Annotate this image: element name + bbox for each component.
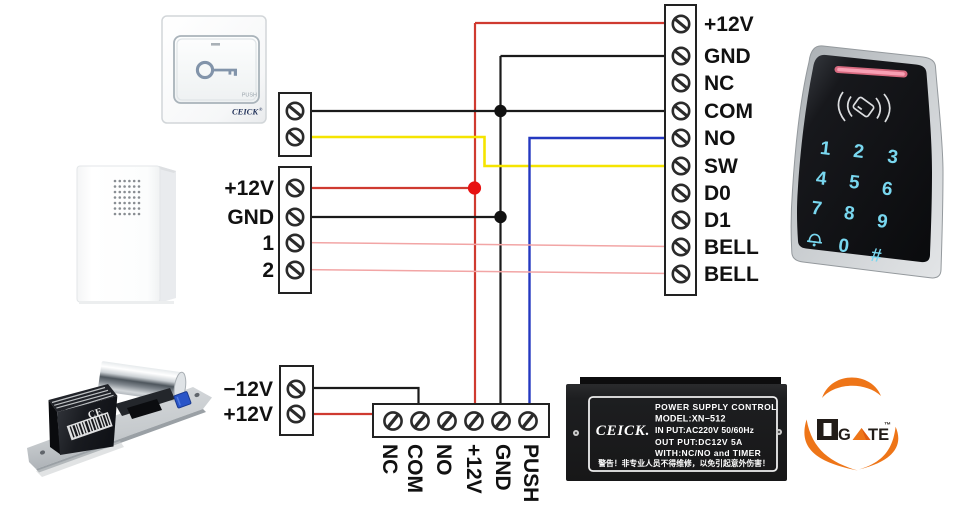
exit button switch bbox=[162, 16, 266, 123]
svg-text:+12V: +12V bbox=[224, 177, 274, 200]
svg-text:NC: NC bbox=[378, 444, 401, 474]
svg-text:WITH:NC/NO and TIMER: WITH:NC/NO and TIMER bbox=[655, 448, 761, 458]
svg-text:POWER SUPPLY CONTROL: POWER SUPPLY CONTROL bbox=[655, 402, 777, 412]
svg-text:NO: NO bbox=[704, 127, 736, 150]
power supply control box bbox=[566, 377, 787, 481]
access control keypad bbox=[791, 46, 943, 278]
wire red +12V vertical bbox=[474, 23, 476, 405]
wire black COM to exit button bbox=[295, 110, 672, 112]
terminal block lock bbox=[280, 366, 313, 435]
wire yellow SW to exit button bbox=[295, 137, 672, 166]
wire black bell GND bbox=[295, 216, 501, 218]
svg-text:警告！非专业人员不得维修，以免引起意外伤害！: 警告！非专业人员不得维修，以免引起意外伤害！ bbox=[598, 458, 770, 468]
doorbell bbox=[77, 166, 176, 304]
svg-text:−12V: −12V bbox=[223, 378, 273, 401]
svg-text:™: ™ bbox=[884, 422, 891, 429]
svg-text:COM: COM bbox=[704, 100, 753, 123]
wire red lock +12V bbox=[296, 413, 375, 415]
wire black GND horizontal bbox=[501, 55, 673, 57]
wire black GND vertical bbox=[499, 56, 501, 405]
wire red +12V horizontal top bbox=[475, 22, 672, 24]
svg-text:OUT PUT:DC12V 5A: OUT PUT:DC12V 5A bbox=[655, 437, 743, 447]
svg-text:BELL: BELL bbox=[704, 263, 759, 286]
svg-text:CEICK.: CEICK. bbox=[596, 423, 650, 439]
terminal block keypad strip bbox=[665, 5, 696, 295]
terminal block doorbell bbox=[279, 167, 311, 293]
svg-text:NC: NC bbox=[704, 72, 734, 95]
wire black lock -12V bbox=[296, 388, 419, 412]
svg-text:1: 1 bbox=[262, 232, 274, 255]
svg-text:GND: GND bbox=[227, 206, 274, 229]
svg-text:GND: GND bbox=[491, 444, 514, 491]
electric bolt lock bbox=[27, 361, 212, 477]
svg-text:IN PUT:AC220V 50/60Hz: IN PUT:AC220V 50/60Hz bbox=[655, 425, 754, 435]
DGATE logo bbox=[804, 377, 898, 470]
wire blue NO to PUSH bbox=[530, 138, 673, 405]
svg-text:BELL: BELL bbox=[704, 236, 759, 259]
junction dot black COM bbox=[494, 105, 506, 117]
svg-text:COM: COM bbox=[403, 444, 426, 493]
svg-text:G: G bbox=[838, 426, 851, 444]
terminal block power supply strip bbox=[373, 404, 549, 437]
svg-text:D1: D1 bbox=[704, 209, 731, 232]
svg-text:CEICK: CEICK bbox=[232, 107, 259, 117]
svg-text:MODEL:XN−512: MODEL:XN−512 bbox=[655, 414, 726, 424]
junction dot red +12V bbox=[468, 181, 481, 194]
terminal block exit button bbox=[279, 93, 311, 156]
svg-text:PUSH: PUSH bbox=[519, 444, 542, 502]
svg-text:+12V: +12V bbox=[223, 403, 273, 426]
svg-text:+12V: +12V bbox=[704, 13, 754, 36]
wire pink bell 2 bbox=[295, 270, 672, 274]
svg-text:NO: NO bbox=[432, 444, 455, 476]
wire red bell +12V bbox=[295, 187, 475, 189]
svg-text:D0: D0 bbox=[704, 182, 731, 205]
svg-text:2: 2 bbox=[262, 259, 274, 282]
junction dot black GND bbox=[494, 211, 506, 223]
svg-text:GND: GND bbox=[704, 45, 751, 68]
svg-text:PUSH: PUSH bbox=[242, 93, 257, 99]
wire pink bell 1 bbox=[295, 243, 672, 247]
svg-text:SW: SW bbox=[704, 155, 738, 178]
svg-text:+12V: +12V bbox=[462, 444, 485, 494]
